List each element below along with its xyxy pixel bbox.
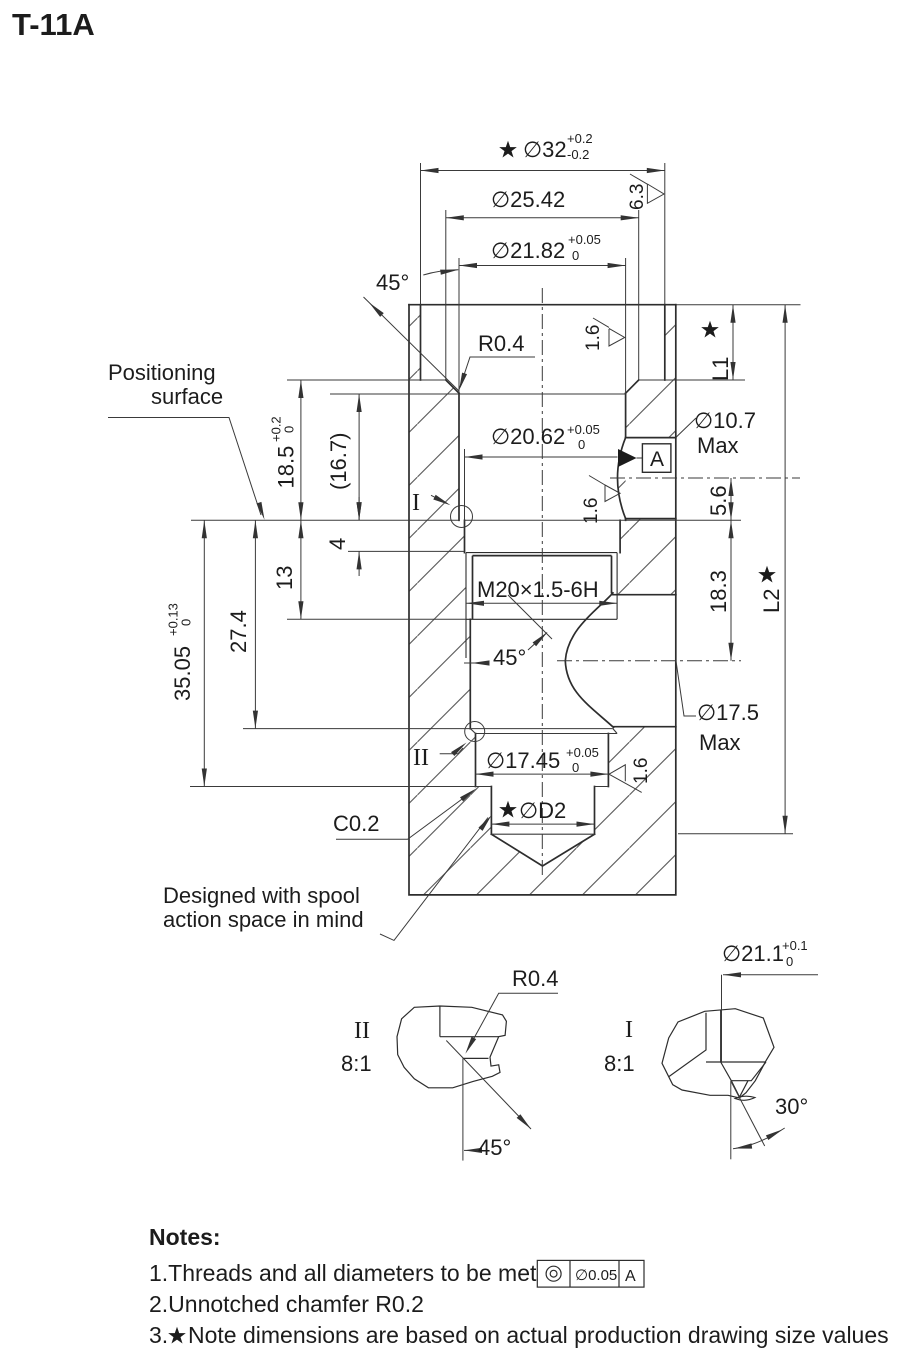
svg-text:action space in mind: action space in mind (163, 907, 364, 932)
svg-text:∅20.62: ∅20.62 (491, 424, 565, 449)
svg-text:surface: surface (151, 384, 223, 409)
svg-text:A: A (650, 448, 664, 471)
svg-text:+0.05: +0.05 (566, 745, 599, 760)
svg-text:1.6: 1.6 (583, 325, 604, 351)
svg-text:A: A (625, 1268, 636, 1285)
svg-text:1.6: 1.6 (581, 498, 602, 524)
svg-text:0: 0 (572, 760, 579, 775)
svg-text:Max: Max (697, 433, 739, 458)
svg-text:Notes:: Notes: (149, 1224, 221, 1250)
svg-text:L2: L2 (759, 589, 784, 613)
svg-text:1.6: 1.6 (631, 758, 652, 784)
svg-text:6.3: 6.3 (627, 184, 648, 210)
svg-text:45°: 45° (493, 645, 526, 670)
svg-text:I: I (625, 1017, 633, 1043)
svg-text:5.6: 5.6 (706, 485, 731, 516)
svg-text:8:1: 8:1 (604, 1051, 635, 1076)
svg-text:II: II (413, 745, 429, 771)
svg-text:8:1: 8:1 (341, 1051, 372, 1076)
svg-text:0: 0 (572, 248, 579, 263)
svg-text:2.Unnotched chamfer R0.2: 2.Unnotched chamfer R0.2 (149, 1291, 424, 1317)
svg-text:4: 4 (325, 538, 350, 550)
svg-text:(16.7): (16.7) (326, 433, 351, 490)
svg-text:∅10.7: ∅10.7 (694, 408, 756, 433)
svg-text:35.05: 35.05 (170, 646, 195, 701)
svg-text:0: 0 (786, 954, 793, 969)
svg-text:1.Threads and all diameters to: 1.Threads and all diameters to be met (149, 1260, 537, 1286)
svg-text:+0.05: +0.05 (568, 232, 601, 247)
svg-text:0: 0 (282, 426, 297, 433)
svg-text:18.5: 18.5 (274, 446, 299, 489)
svg-text:L1: L1 (708, 357, 733, 381)
svg-text:27.4: 27.4 (226, 610, 251, 653)
svg-text:M20×1.5-6H: M20×1.5-6H (477, 577, 599, 602)
svg-text:∅21.1: ∅21.1 (722, 941, 784, 966)
svg-text:30°: 30° (775, 1094, 808, 1119)
svg-text:II: II (354, 1018, 370, 1044)
svg-text:∅17.45: ∅17.45 (486, 748, 560, 773)
svg-text:R0.4: R0.4 (478, 331, 524, 356)
svg-text:∅17.5: ∅17.5 (697, 700, 759, 725)
svg-text:∅21.82: ∅21.82 (491, 238, 565, 263)
svg-text:C0.2: C0.2 (333, 811, 379, 836)
svg-text:0: 0 (578, 437, 585, 452)
svg-text:∅25.42: ∅25.42 (491, 187, 565, 212)
svg-text:45°: 45° (376, 270, 409, 295)
svg-text:13: 13 (272, 566, 297, 590)
svg-text:∅0.05: ∅0.05 (575, 1267, 617, 1284)
svg-text:18.3: 18.3 (706, 570, 731, 613)
svg-text:3.: 3. (149, 1322, 168, 1348)
svg-text:+0.2: +0.2 (567, 131, 593, 146)
svg-text:R0.4: R0.4 (512, 966, 558, 991)
svg-text:Designed with spool: Designed with spool (163, 883, 360, 908)
svg-text:I: I (412, 490, 420, 516)
svg-text:-0.2: -0.2 (567, 147, 589, 162)
svg-text:∅32: ∅32 (523, 137, 567, 162)
svg-text:Positioning: Positioning (108, 360, 216, 385)
svg-text:+0.05: +0.05 (567, 422, 600, 437)
svg-text:∅D2: ∅D2 (519, 798, 566, 823)
svg-text:+0.1: +0.1 (782, 938, 808, 953)
svg-text:45°: 45° (478, 1135, 511, 1160)
svg-text:T-11A: T-11A (12, 7, 95, 42)
svg-text:0: 0 (179, 619, 194, 626)
svg-text:Note dimensions are based on a: Note dimensions are based on actual prod… (188, 1322, 889, 1348)
svg-text:Max: Max (699, 730, 741, 755)
